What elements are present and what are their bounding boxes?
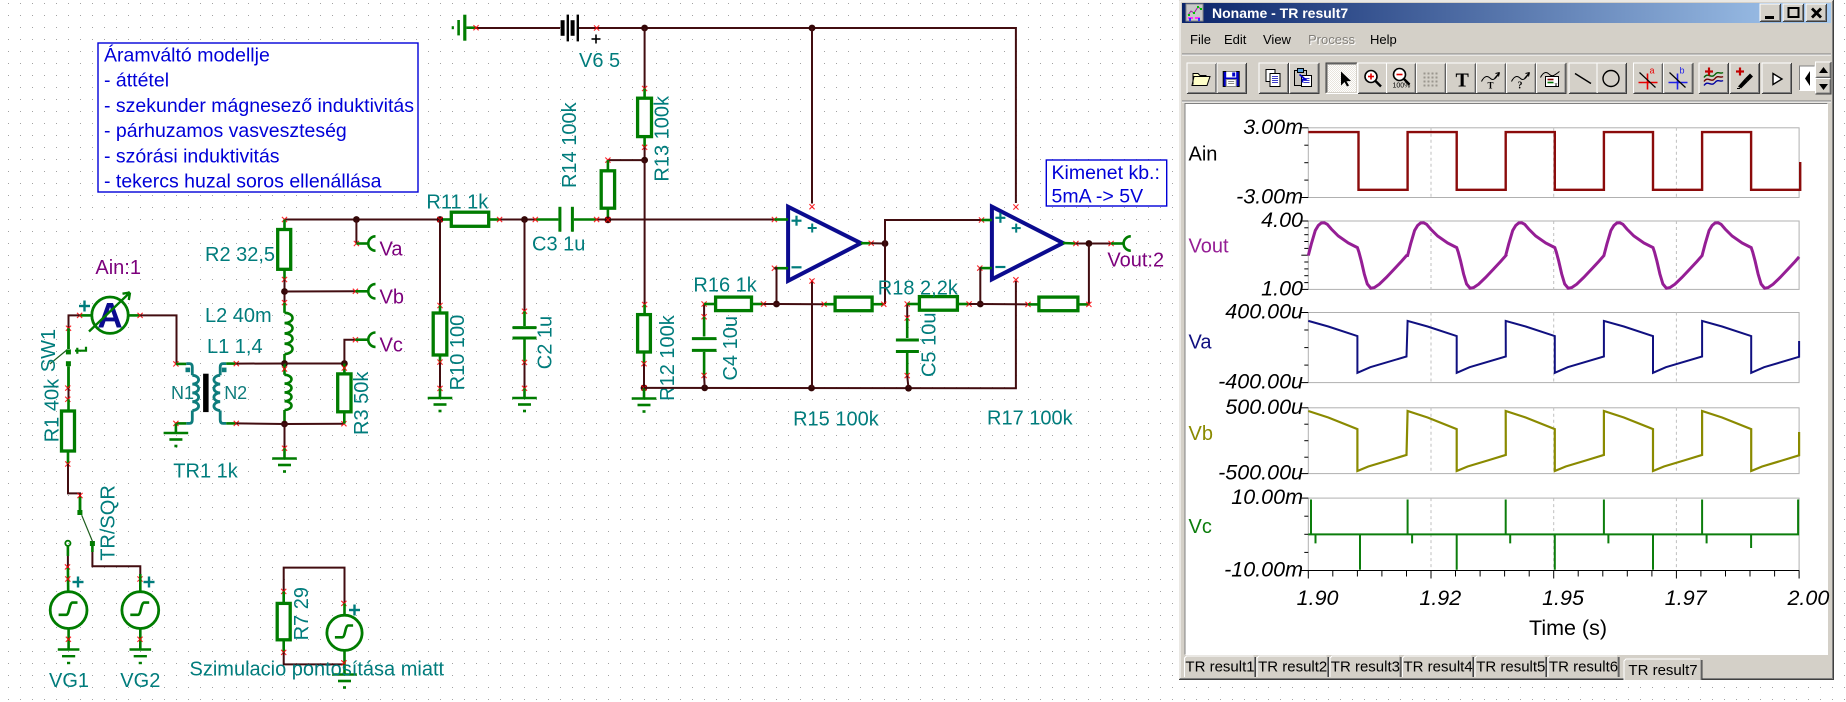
svg-text:Vout: Vout [1189, 236, 1229, 258]
tab TR result1 [1184, 656, 1255, 677]
svg-text:- párhuzamos vasveszteség: - párhuzamos vasveszteség [104, 120, 347, 142]
svg-text:T: T [1456, 70, 1470, 92]
wire: switch to VG2 [91, 546, 94, 552]
wire: junction to Vc/R3 node [285, 363, 345, 365]
svg-text:3.00m: 3.00m [1243, 115, 1303, 139]
svg-text:View: View [1263, 32, 1292, 47]
svg-text:V6 5: V6 5 [579, 50, 620, 72]
ground (battery minus, top-left) [467, 26, 477, 29]
svg-text:R16 1k: R16 1k [693, 275, 757, 297]
plot frame Vb [1308, 408, 1799, 474]
transformer core [203, 374, 209, 412]
tab TR result3 [1330, 656, 1401, 677]
svg-text:TR result3: TR result3 [1331, 659, 1400, 676]
node: R18/R17 feedback junction [977, 301, 984, 308]
plot frame Ain [1308, 128, 1799, 198]
capacitor C5 [906, 304, 908, 318]
capacitor C4 [703, 304, 705, 317]
wire: - input2 down to feedback node [979, 268, 982, 304]
node: Vc/R3 junction [341, 360, 348, 367]
wire: R7 loop top [284, 568, 345, 604]
tab TR result2 [1257, 656, 1328, 677]
toolbar button: line [1569, 63, 1599, 94]
toolbar button: open [1187, 63, 1217, 94]
svg-text:-500.00u: -500.00u [1218, 461, 1303, 485]
wire: R13 to junction [644, 147, 646, 160]
waveform Ain [1308, 132, 1800, 190]
toolbar button: curveT [1477, 63, 1507, 94]
svg-text:Edit: Edit [1224, 32, 1247, 47]
wire: output node [871, 242, 885, 244]
toolbar button: arrow [1326, 63, 1358, 94]
resistor R7 [282, 591, 285, 603]
wire: output up to op-amp2 + input [885, 220, 982, 244]
wire: output2 node [1076, 243, 1100, 245]
svg-text:5mA -> 5V: 5mA -> 5V [1052, 186, 1144, 208]
resistor R13 [643, 89, 646, 99]
svg-text:C3 1u: C3 1u [532, 234, 585, 256]
svg-text:1.97: 1.97 [1665, 586, 1708, 610]
node: R13/R14/R12 junction [641, 157, 648, 164]
switch SW1 [67, 328, 70, 349]
node: L2/N2/Vc junction [281, 360, 288, 367]
svg-text:1.00: 1.00 [1261, 276, 1303, 300]
tab TR result6 [1548, 656, 1619, 677]
toolbar spinner [1816, 62, 1832, 78]
svg-text:R7 29: R7 29 [291, 587, 313, 640]
svg-text:Vc: Vc [380, 335, 403, 357]
svg-text:C5 10u: C5 10u [919, 313, 941, 378]
svg-text:- szekunder mágnesező induktiv: - szekunder mágnesező induktivitás [104, 95, 414, 117]
toolbar button: save [1217, 63, 1247, 94]
wire: battery to op-amp supply rail [579, 28, 1016, 203]
svg-text:R17 100k: R17 100k [987, 408, 1074, 430]
waveform Vb [1308, 411, 1799, 471]
svg-text:- szórási induktivitás: - szórási induktivitás [104, 145, 280, 167]
svg-text:TR/SQR: TR/SQR [98, 485, 120, 561]
generator VG (simulation) [343, 603, 346, 615]
switch TR/SQR [79, 497, 82, 510]
op-amp2 + input pin [979, 217, 984, 222]
wire: - input down to feedback node [774, 268, 776, 304]
svg-text:R14 100k: R14 100k [559, 101, 581, 188]
inductor L2 40m [283, 303, 286, 313]
op-amp U1 [788, 207, 861, 281]
wire: R13 junction down to R12 (crosses main wire) [644, 160, 646, 304]
node: L1/N2-bottom junction [281, 421, 288, 428]
wire: bottom rail [644, 281, 1016, 388]
node: C4 rail junction [701, 385, 708, 392]
op-amp1 - input pin [772, 266, 777, 271]
svg-text:L1 1,4: L1 1,4 [207, 336, 263, 358]
wire: main signal row y=219.5 [285, 219, 444, 221]
node: Va tap junction [353, 216, 360, 223]
svg-text:Kimenet kb.:: Kimenet kb.: [1052, 162, 1160, 184]
svg-text:N2: N2 [224, 383, 247, 403]
transformer TR1 primary winding N1 [176, 363, 186, 366]
wire: output2 down to R17 [1088, 244, 1090, 305]
toolbar button: csrb [1664, 63, 1694, 94]
svg-text:R2 32,5: R2 32,5 [205, 244, 275, 266]
resistor R14 [607, 160, 610, 171]
op-amp2 output pin [1063, 242, 1076, 245]
waveform Va [1308, 321, 1799, 373]
svg-text:1.92: 1.92 [1419, 586, 1461, 610]
svg-text:Time (s): Time (s) [1529, 616, 1607, 640]
svg-text:b: b [1680, 66, 1685, 76]
wire: N2 bottom to L1 junction [226, 422, 236, 425]
svg-text:- tekercs huzal soros ellenáll: - tekercs huzal soros ellenállása [104, 171, 382, 193]
tab TR result4 [1403, 656, 1474, 677]
node: C2 tap junction [521, 216, 528, 223]
annotation box: Aramvalto modellje [98, 43, 418, 192]
svg-text:TR1 1k: TR1 1k [173, 461, 238, 483]
ground under VG1 [67, 641, 70, 649]
resistor R18 [907, 303, 919, 306]
svg-text:TR result2: TR result2 [1258, 659, 1327, 676]
testpoint Vc [344, 340, 355, 364]
toolbar button: T [1447, 63, 1477, 94]
svg-text:R3 50k: R3 50k [351, 371, 373, 435]
tab TR result7 (active) [1624, 659, 1702, 680]
node: R14 bottom junction [605, 216, 612, 223]
battery V6 [563, 15, 578, 42]
node: Vb junction [281, 288, 288, 295]
svg-text:Vb: Vb [380, 287, 404, 309]
wire: switch to VG1 [67, 546, 70, 556]
wire: R1 to switch TR/SQR [68, 464, 80, 497]
wire: output down to R15 [884, 244, 886, 305]
ground under L1 [284, 424, 286, 448]
plot frame Va [1308, 313, 1799, 383]
svg-text:100%: 100% [1393, 83, 1411, 90]
node: rail/R13 junction [641, 25, 648, 32]
wire: R12 to bottom rail [643, 364, 645, 388]
node: R16/R15 feedback junction [773, 301, 780, 308]
svg-text:VG2: VG2 [120, 670, 160, 692]
svg-text:x: x [1555, 83, 1558, 89]
wire: main row corner down to R2 [282, 217, 287, 222]
toolbar button: paste [1290, 63, 1320, 94]
toolbar button: grid [1417, 63, 1447, 94]
svg-text:a: a [1650, 66, 1655, 76]
svg-text:Áramváltó modellje: Áramváltó modellje [104, 44, 270, 67]
svg-text:Process: Process [1308, 32, 1355, 47]
resistor R12 [642, 302, 647, 307]
svg-text:Szimulacio pontosítása miatt: Szimulacio pontosítása miatt [190, 659, 445, 681]
resistor R10 [439, 220, 441, 306]
svg-text:R18 2,2k: R18 2,2k [878, 278, 959, 300]
svg-text:1.95: 1.95 [1542, 586, 1585, 610]
svg-text:R10 100: R10 100 [447, 315, 469, 391]
svg-text:SW1: SW1 [38, 329, 60, 372]
ammeter Ain [92, 297, 128, 333]
toolbar button: legend [1537, 63, 1567, 94]
ground under generator [343, 664, 346, 673]
node: rail/op-amp1 supply junction [809, 25, 816, 32]
ground under VG2 [139, 641, 142, 649]
svg-text:Noname - TR result7: Noname - TR result7 [1212, 5, 1348, 21]
toolbar button: waves [1699, 63, 1729, 94]
toolbar button: zoom100 [1387, 63, 1417, 94]
node: C5 rail junction [905, 385, 912, 392]
ground under N1 [176, 422, 186, 425]
toolbar button: copy [1259, 63, 1289, 94]
wire: op-amp1 supply drop [811, 28, 813, 204]
resistor R3 [343, 364, 346, 374]
resistor R2 [283, 220, 286, 230]
svg-text:1.90: 1.90 [1297, 586, 1339, 610]
resistor R1 [67, 399, 70, 411]
wire: ammeter left to switch SW1 [80, 314, 92, 317]
op-amp1 output pin [861, 242, 871, 245]
testpoint Va [355, 220, 357, 244]
svg-text:T: T [1488, 81, 1494, 91]
transformer secondary winding N2 [220, 364, 226, 376]
svg-text:TR result4: TR result4 [1404, 659, 1473, 676]
wire: SW1 to R1 [67, 366, 70, 388]
resistor R15 [777, 303, 825, 305]
ground under C2 [524, 363, 526, 389]
annotation box: Kimenet kb. [1046, 160, 1166, 206]
svg-text:Ain: Ain [1189, 144, 1218, 166]
resistor R17 [980, 303, 1028, 305]
ground at bottom rail [643, 388, 646, 398]
toolbar button: play [1762, 63, 1792, 94]
svg-text:-3.00m: -3.00m [1236, 185, 1303, 209]
plot frame Vc [1308, 498, 1799, 570]
svg-text:Vb: Vb [1189, 423, 1213, 445]
testpoint Vout:2 [1100, 243, 1111, 245]
svg-text:500.00u: 500.00u [1225, 395, 1303, 419]
svg-text:C2 1u: C2 1u [535, 316, 557, 369]
op-amp1 + input pin [772, 217, 777, 222]
wire: ground to battery V6 [476, 27, 560, 29]
x axis [1308, 571, 1799, 579]
svg-text:Ain:1: Ain:1 [95, 257, 141, 279]
svg-text:C4 10u: C4 10u [720, 316, 742, 381]
svg-text:N1: N1 [171, 383, 194, 403]
toolbar button: dropper [1730, 63, 1760, 94]
wire: junction to R14 top [608, 159, 645, 161]
waveform Vout [1308, 223, 1799, 288]
svg-text:2.00: 2.00 [1786, 586, 1829, 610]
svg-text:L2 40m: L2 40m [205, 305, 272, 327]
wire: N2 top to L2 junction [226, 362, 236, 365]
node: op-amp1 output junction [882, 240, 889, 247]
generator VG2 [122, 592, 159, 629]
capacitor C2 [524, 220, 526, 312]
testpoint Vb [285, 290, 356, 292]
svg-text:-10.00m: -10.00m [1224, 558, 1303, 582]
ground under R10 [439, 363, 441, 389]
toolbar button: circle [1597, 63, 1627, 94]
svg-text:-400.00u: -400.00u [1218, 370, 1303, 394]
svg-text:400.00u: 400.00u [1225, 300, 1303, 324]
wire: R2 to Vb junction [284, 280, 286, 303]
wire: op-amp1 bottom pin [811, 281, 813, 388]
plot frame Vout [1308, 221, 1799, 289]
svg-text:R1 40k: R1 40k [41, 378, 63, 442]
toolbar button: curveQ [1507, 63, 1537, 94]
svg-text:File: File [1190, 32, 1211, 47]
node: op-amp2 output junction [1086, 240, 1093, 247]
svg-text:R11 1k: R11 1k [426, 192, 489, 214]
svg-text:4.00: 4.00 [1261, 208, 1303, 232]
wire: rail to R13 [644, 28, 646, 89]
wire: ammeter right to transformer N1 [128, 314, 140, 317]
resistor R16 [704, 303, 716, 306]
svg-text:TR result5: TR result5 [1476, 659, 1545, 676]
svg-text:?: ? [1518, 81, 1523, 92]
wire: R7 loop bottom [284, 652, 345, 664]
svg-text:TR result7: TR result7 [1628, 662, 1697, 679]
resistor R11 [443, 218, 451, 221]
svg-text:TR result6: TR result6 [1549, 659, 1618, 676]
svg-text:Help: Help [1370, 32, 1397, 47]
waveform Vc [1308, 500, 1799, 570]
tab TR result5 [1475, 656, 1546, 677]
svg-text:- áttétel: - áttétel [104, 70, 169, 92]
svg-text:Va: Va [380, 239, 404, 261]
svg-text:VG1: VG1 [49, 670, 89, 692]
op-amp U2 [992, 207, 1063, 280]
svg-text:Vout:2: Vout:2 [1107, 250, 1164, 272]
wire: junction to R3 bottom [285, 423, 344, 425]
node: rail left end / ground [641, 385, 648, 392]
toolbar button: zoomin [1358, 63, 1388, 94]
node: op-amp1 rail junction [808, 385, 815, 392]
node: R10 tap junction [437, 216, 444, 223]
svg-text:R15 100k: R15 100k [793, 409, 880, 431]
svg-text:R13 100k: R13 100k [651, 95, 673, 182]
svg-text:TR result1: TR result1 [1185, 659, 1254, 676]
inductor L1 1,4 [283, 364, 286, 375]
generator VG1 [50, 592, 87, 629]
op-amp2 - input pin [977, 266, 982, 271]
svg-text:Vc: Vc [1189, 516, 1212, 538]
toolbar nav arrow [1800, 66, 1816, 91]
toolbar button: csra [1634, 63, 1664, 94]
capacitor C3 [535, 218, 558, 221]
svg-text:Va: Va [1189, 332, 1213, 354]
svg-text:10.00m: 10.00m [1231, 485, 1303, 509]
